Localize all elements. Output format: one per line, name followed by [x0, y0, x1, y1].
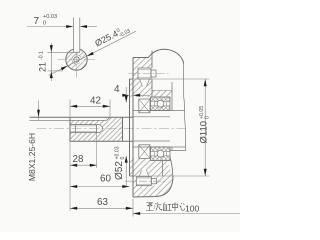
svg-text:0: 0: [120, 157, 126, 160]
crankcase top outline: [133, 49, 184, 63]
shaft section hatched fill: [70, 120, 123, 141]
dimension 100 arrow: [133, 212, 140, 215]
svg-text:21: 21: [38, 62, 48, 72]
crankcase face line: [132, 58, 134, 198]
dimension 110 line: [204, 79, 206, 176]
top hole chamfer lines: [140, 79, 150, 87]
svg-text:63: 63: [97, 197, 108, 208]
crank web edges: [170, 82, 186, 151]
dimension 21 arrows: [50, 45, 53, 78]
keyway depth arrow: [37, 110, 40, 117]
bottom tapped hole white cutout: [136, 177, 156, 186]
bottom wall hatch: [130, 159, 173, 177]
dimension 100 line: [133, 213, 240, 215]
M8 tapped hole outline: [70, 125, 103, 133]
text to cylinder center (Chinese glyph strokes): [146, 202, 185, 211]
dimension 7 arrows: [66, 25, 87, 28]
top tapped hole white cutout: [138, 68, 156, 79]
center hole white cutout: [72, 55, 81, 64]
shaft hatched fill above keyway root right part: [107, 117, 123, 120]
dimension 52 arrows: [125, 96, 128, 163]
dimension 28 line: [70, 164, 97, 166]
dimension 52 lower line: [125, 156, 127, 187]
dimension 60 arrows: [70, 185, 130, 188]
dimension 110 text: [199, 106, 211, 144]
bottom hole centerline: [125, 180, 167, 182]
dimension 42 arrows: [70, 105, 110, 108]
top boss hatch: [133, 58, 152, 80]
M8 thread lines: [70, 126, 97, 131]
top tapped hole outline: [138, 68, 156, 79]
shaft circle outline: [66, 49, 87, 70]
svg-text:7: 7: [34, 16, 40, 27]
spigot face line: [129, 79, 131, 176]
svg-text:M8X1.25-6H: M8X1.25-6H: [27, 133, 37, 181]
dimension 4 arrows: [122, 94, 140, 97]
bearing top section: [151, 97, 171, 111]
keyway slot left wall / extension line: [72, 18, 74, 53]
horizontal centerline of circle: [58, 59, 95, 61]
oil seal bottom block: [139, 145, 150, 159]
thread crest arc: [72, 55, 81, 64]
keyway slot right wall / extension line: [79, 18, 81, 53]
bottom boss hatch: [133, 176, 173, 197]
keyway root line: [30, 117, 111, 120]
dimension 110 extension lines: [133, 79, 210, 176]
leader line diameter 25.4: [49, 31, 137, 75]
svg-text:+0.03: +0.03: [43, 14, 57, 20]
vertical centerline of circle: [76, 54, 78, 80]
dimension 28 arrows: [70, 164, 97, 167]
leader text diameter 25.4: [93, 23, 131, 50]
shaft outline: [30, 117, 134, 141]
dimension 110 arrows: [204, 79, 207, 176]
svg-text:42: 42: [90, 96, 101, 107]
dimension 42 extension lines: [70, 100, 110, 117]
dimension 52 text: [114, 146, 126, 180]
shaft circle hatched fill: [66, 49, 87, 70]
top wall hatch: [130, 79, 153, 97]
bottom inner wall: [162, 159, 164, 177]
svg-text:Ø52: Ø52: [114, 161, 125, 180]
dimension 42 line: [70, 105, 110, 107]
M8 tapped hole white cutout: [70, 125, 102, 133]
top hole thread lines: [138, 69, 151, 77]
bearing bottom section: [151, 147, 171, 161]
svg-text:28: 28: [73, 154, 84, 165]
svg-text:0: 0: [204, 116, 210, 119]
dimension 60 line: [70, 186, 130, 188]
dimension 7 text: [34, 14, 58, 27]
dimension 100 extension line: [132, 199, 134, 217]
dimension 21 text: [38, 51, 48, 72]
top hole chamfer white cutout: [140, 79, 150, 87]
svg-text:0: 0: [43, 20, 46, 26]
spigot top edge: [130, 78, 134, 80]
keyway slot bottom line: [73, 51, 79, 53]
svg-text:4: 4: [114, 84, 120, 95]
dimension 63 arrows: [70, 207, 133, 210]
support boundary line: [152, 90, 172, 92]
bottom hole chamfer white cutout: [139, 170, 149, 177]
break line: [184, 64, 186, 151]
dimension 21 line: [50, 43, 52, 81]
keyway slot white cutout: [74, 44, 80, 52]
bottom hole thread lines: [136, 178, 151, 184]
spigot bottom edge: [130, 175, 134, 177]
crankcase bottom outline: [133, 176, 173, 197]
dimension 28 extension line: [96, 125, 98, 168]
dimension 63 line: [70, 207, 133, 209]
shaft centerline: [37, 128, 187, 130]
bottom shell curve: [167, 151, 173, 177]
dimension 52 upper line: [125, 87, 127, 103]
journal lines inside case: [133, 111, 185, 148]
leader arrows on circle: [61, 52, 94, 71]
svg-text:-0.1: -0.1: [39, 51, 45, 60]
dimension 7 line: [27, 26, 97, 28]
top hole centerline: [129, 73, 171, 75]
bottom tapped hole outline: [136, 177, 156, 186]
svg-text:100: 100: [185, 203, 200, 213]
bearing support hatch top: [152, 91, 172, 97]
dimension 4 arrow tail: [140, 94, 149, 96]
crankcase inner wall top: [151, 51, 153, 97]
keyway depth tick line: [38, 101, 40, 121]
dimension 21 extension lines: [48, 52, 74, 71]
svg-text:60: 60: [100, 174, 111, 185]
center hole circle: [74, 57, 79, 62]
bottom hole chamfer lines: [139, 170, 149, 177]
left long extension line: [69, 141, 71, 211]
oil seal top block: [139, 99, 150, 113]
svg-text:Ø110: Ø110: [199, 121, 210, 144]
